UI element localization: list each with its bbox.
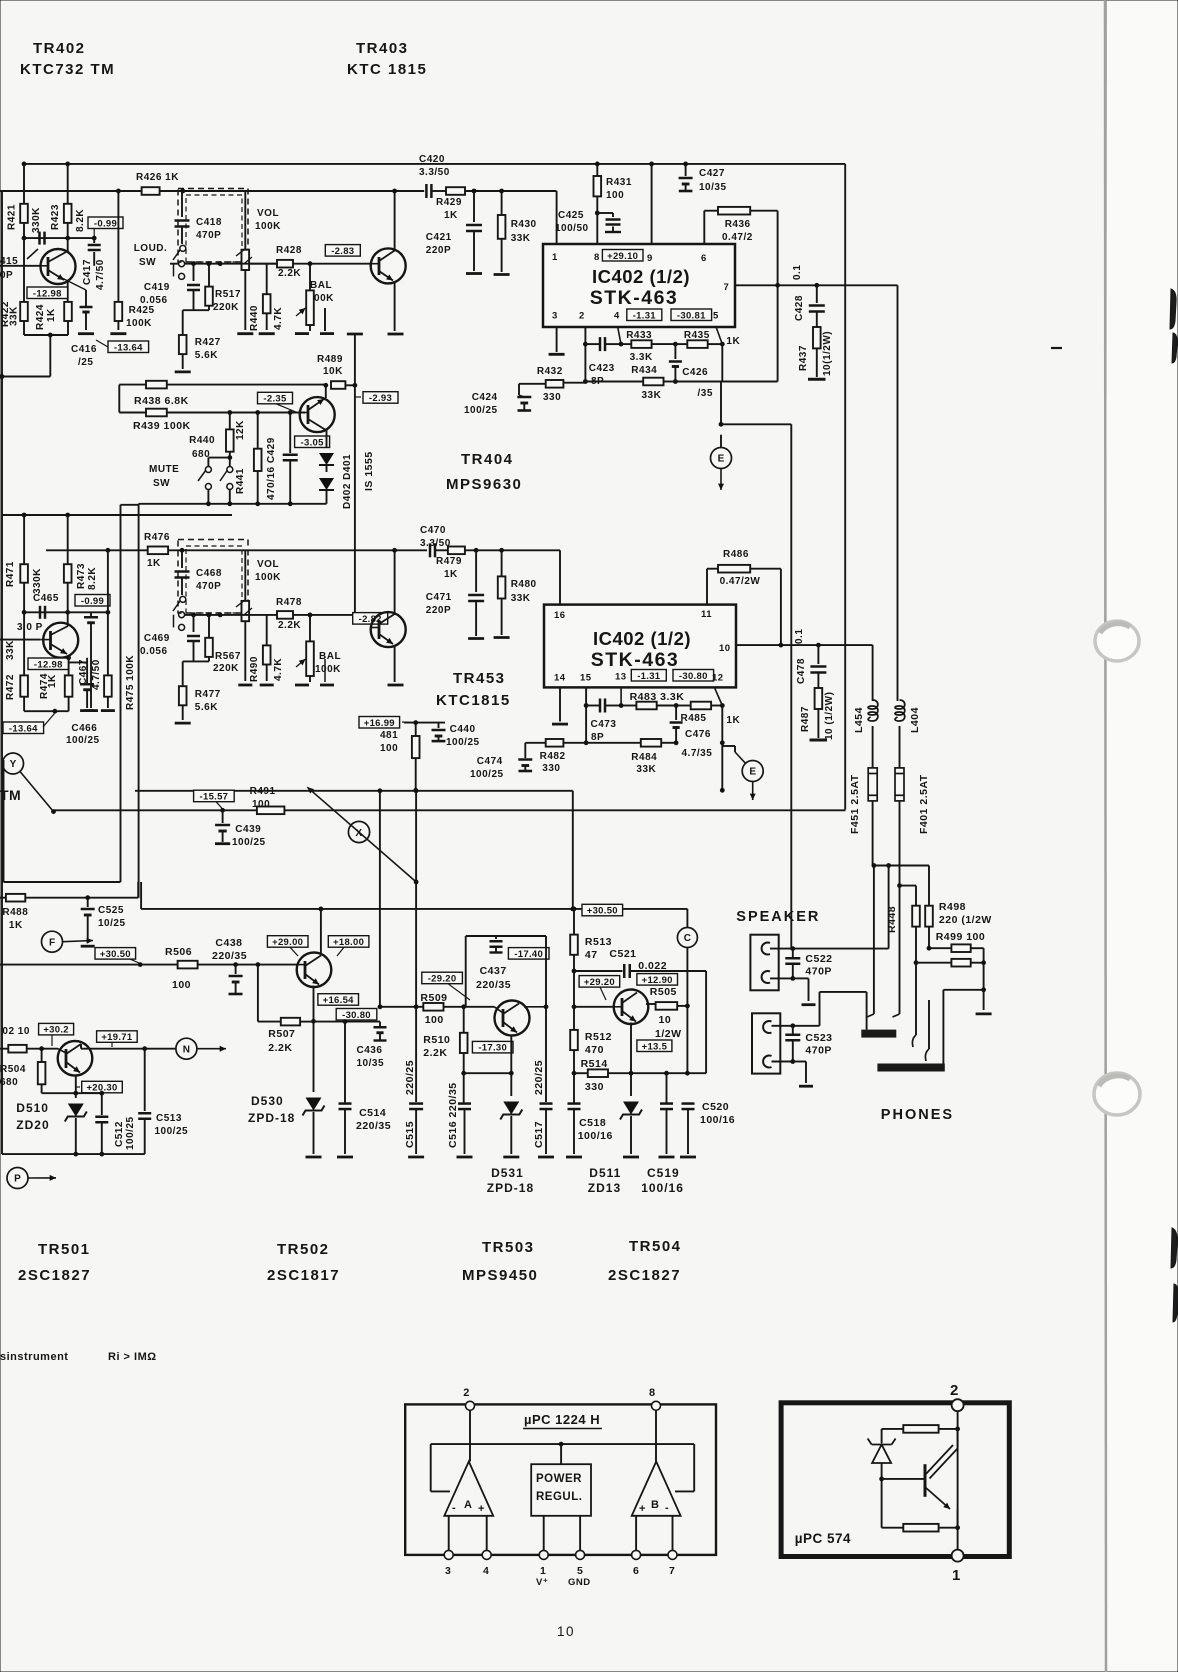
svg-text:TR503: TR503 [482, 1239, 535, 1256]
voltage box -17.40 [508, 948, 549, 960]
node dot wiper2 c [218, 613, 223, 618]
svg-text:R488: R488 [2, 907, 28, 918]
node dot R509 R510 [461, 1004, 466, 1009]
capacitor C419 0.056 [193, 264, 195, 281]
capacitor C518 100/16 [573, 1073, 575, 1103]
capacitor C465 30P [24, 611, 68, 613]
punch hole upper [1095, 621, 1139, 661]
svg-text:330: 330 [542, 763, 560, 774]
svg-text:-2.93: -2.93 [369, 393, 392, 404]
transistor TR452 [43, 623, 78, 658]
svg-text:D402 D401: D402 D401 [342, 454, 353, 509]
svg-text:100: 100 [606, 190, 624, 201]
svg-text:X: X [355, 828, 362, 839]
wire R513 branch [572, 907, 577, 912]
svg-text:POWER: POWER [536, 1473, 582, 1485]
svg-text:470P: 470P [805, 966, 832, 978]
voltage box -2.82 ch2 [353, 613, 388, 625]
svg-text:C514: C514 [359, 1107, 386, 1119]
wire pin6 up and R436 [703, 211, 705, 244]
wire TR502 emitter down [313, 986, 315, 1022]
svg-text:100/25: 100/25 [446, 737, 480, 748]
svg-text:100/50: 100/50 [555, 223, 589, 234]
svg-text:2SC1827: 2SC1827 [608, 1267, 681, 1284]
svg-text:TR402: TR402 [33, 40, 86, 57]
node dot bus pin9 [649, 162, 654, 167]
svg-text:2: 2 [950, 1382, 959, 1399]
voltage box +18.00 [328, 936, 369, 948]
wire C node vertical [686, 909, 688, 928]
svg-text:100/16: 100/16 [641, 1181, 684, 1195]
voltage box +12.90 [637, 974, 678, 986]
svg-text:R424: R424 [35, 304, 46, 330]
inductor L404 [895, 700, 905, 721]
wire phones tip drop [873, 866, 875, 1015]
capacitor C421 220P [473, 191, 475, 222]
svg-text:2.2K: 2.2K [268, 1042, 292, 1054]
capacitor C519 100/16 [664, 1071, 669, 1076]
voltage box +16.54 [318, 994, 359, 1006]
svg-text:PHONES: PHONES [881, 1107, 954, 1123]
node dot pin7 C428 [814, 283, 819, 288]
svg-text:B: B [651, 1499, 659, 1511]
wire input row ch1 [0, 190, 183, 192]
svg-text:+: + [478, 1503, 485, 1515]
voltage box +30.2 [39, 1023, 74, 1035]
node dot R512 bottom [572, 1071, 577, 1076]
svg-text:R478: R478 [276, 597, 302, 608]
resistor R514 330 [574, 1072, 588, 1074]
resistor R504 680 [41, 1049, 43, 1062]
capacitor C476 4.7/35 [675, 706, 677, 721]
node dot bus2 a [22, 513, 27, 518]
svg-text:R428: R428 [276, 245, 302, 256]
svg-text:+13.5: +13.5 [642, 1041, 668, 1052]
svg-text:SW: SW [153, 478, 170, 489]
resistor R423 8.2K [67, 164, 69, 204]
uPC574 base wire [882, 1478, 925, 1480]
node circle N [176, 1038, 197, 1059]
voltage box +20.30 [82, 1081, 123, 1093]
svg-text:Y: Y [10, 759, 17, 770]
node dot pin10 R486 [779, 643, 784, 648]
node dot wiper2 b [206, 613, 211, 618]
capacitor C517 220/25 [540, 1102, 553, 1105]
node dot bus R431 [595, 162, 600, 167]
svg-text:N: N [183, 1044, 190, 1055]
dashed box VOL ch2 [178, 540, 248, 614]
wire pin10 down to L454 [872, 645, 874, 701]
resistor R480 33K [501, 550, 503, 576]
svg-text:KTC 1815: KTC 1815 [347, 61, 427, 78]
uPC1224 bottom leads [448, 1516, 450, 1551]
svg-text:-30.81: -30.81 [677, 310, 706, 321]
svg-text:MPS9450: MPS9450 [462, 1267, 538, 1284]
svg-text:1K: 1K [47, 674, 58, 688]
svg-text:R426 1K: R426 1K [136, 172, 179, 183]
switch LOUD ch1 [180, 245, 186, 251]
resistor R478 2.2K [277, 611, 293, 619]
svg-text:C518: C518 [579, 1117, 606, 1129]
svg-text:10: 10 [719, 643, 731, 654]
potentiometer VOL ch2 [244, 550, 246, 601]
svg-text:TR504: TR504 [629, 1238, 682, 1255]
node dot phones gnd [981, 987, 986, 992]
svg-text:R437: R437 [798, 345, 809, 371]
voltage box -15.57 [194, 790, 235, 802]
svg-text:R429: R429 [436, 197, 462, 208]
transistor TR453 [371, 612, 406, 647]
svg-text:10/35: 10/35 [699, 182, 727, 193]
capacitor C523 470P [792, 1026, 794, 1034]
voltage box -0.99 ch2 [75, 595, 110, 607]
IC uPC574 outer box [781, 1403, 1009, 1557]
resistor R505 10 1/2W [646, 1003, 656, 1005]
wire IC1 pin7 output [735, 284, 898, 286]
resistor R486 0.47/2W [706, 569, 708, 605]
resistor R482 330 [525, 742, 545, 744]
svg-text:C436: C436 [357, 1045, 383, 1056]
svg-text:+16.54: +16.54 [323, 995, 355, 1006]
wire R510 to emitter [464, 1072, 512, 1074]
node dot R489 l [323, 383, 328, 388]
resistor R435 [687, 340, 707, 348]
wire TR453 collector up [394, 550, 396, 614]
svg-text:5: 5 [577, 1565, 583, 1577]
node dot E1 [719, 422, 724, 427]
svg-text:C512: C512 [114, 1121, 125, 1147]
svg-text:SPEAKER: SPEAKER [736, 909, 820, 925]
svg-text:100: 100 [425, 1014, 444, 1026]
svg-text:100/16: 100/16 [578, 1130, 613, 1142]
resistor R440 4.7K [266, 264, 268, 295]
svg-text:3.3/50: 3.3/50 [420, 538, 451, 549]
svg-text:R431: R431 [606, 177, 632, 188]
switch LOUD ch2 [180, 596, 186, 602]
wire TR404 emitter to R489 row [325, 385, 327, 398]
svg-text:R491: R491 [250, 786, 276, 797]
svg-text:C521: C521 [609, 948, 636, 960]
capacitor C415 coupling [38, 232, 41, 245]
node dot R430 [499, 189, 504, 194]
capacitor C420 3.3/50 [425, 184, 428, 198]
capacitor C440 100/25 [404, 722, 445, 724]
svg-text:ZPD-18: ZPD-18 [248, 1111, 295, 1125]
svg-text:C421: C421 [426, 232, 452, 243]
speaker connector 2 [752, 1013, 780, 1073]
node dot spk up [886, 863, 891, 868]
resistor R567 220K [208, 615, 210, 638]
svg-text:R436: R436 [725, 219, 751, 230]
wire ring2 [928, 1000, 930, 1049]
node dot fb c [720, 342, 725, 347]
wire C521 right drop [705, 971, 707, 1073]
uPC1224 pin terminals bottom [444, 1550, 453, 1559]
uPC1224 inner bus [431, 1443, 695, 1445]
svg-text:R490: R490 [249, 656, 260, 682]
capacitor C468 470P [181, 550, 183, 568]
svg-text:470P: 470P [196, 230, 221, 241]
svg-text:10: 10 [557, 1624, 575, 1639]
svg-text:IC402 (1/2): IC402 (1/2) [592, 266, 690, 287]
node dot C525 [85, 895, 90, 900]
wire fb right down [721, 344, 723, 381]
voltage box -13.64 ch1 [108, 341, 149, 353]
svg-text:C417: C417 [82, 259, 93, 285]
capacitor C521 0.022 [574, 970, 623, 972]
resistor R472 33K [23, 612, 25, 675]
page fold line [1105, 0, 1106, 1672]
svg-text:R484: R484 [631, 752, 657, 763]
svg-text:/35: /35 [698, 388, 713, 399]
svg-text:220P: 220P [426, 245, 451, 256]
capacitor C469 0.056 [193, 615, 195, 632]
svg-text:220/35: 220/35 [356, 1120, 391, 1132]
svg-text:TR404: TR404 [461, 451, 514, 468]
capacitor C473 8P [586, 705, 599, 707]
svg-text:R423: R423 [50, 204, 61, 230]
svg-text:10K: 10K [323, 366, 343, 377]
svg-text:BAL: BAL [310, 280, 332, 291]
capacitor C436 10/35 [379, 1022, 381, 1026]
svg-text:L404: L404 [909, 707, 921, 733]
svg-text:2: 2 [463, 1387, 470, 1399]
wire wiper row ch1 [185, 263, 277, 265]
svg-text:0.1: 0.1 [792, 265, 803, 280]
svg-text:330: 330 [543, 392, 561, 403]
resistor R438 6.8K [146, 381, 167, 389]
svg-text:R510: R510 [423, 1034, 450, 1046]
svg-text:1: 1 [552, 252, 558, 263]
voltage box -30.81 [671, 309, 712, 321]
scan fleck [1051, 347, 1062, 349]
svg-text:100: 100 [380, 743, 398, 754]
wire mute bus [139, 503, 327, 505]
wire Y diagonal [20, 772, 54, 812]
svg-text:-2.35: -2.35 [263, 394, 287, 405]
wire mute bus drop left [138, 504, 140, 898]
svg-text:+: + [639, 1503, 646, 1515]
svg-text:R440: R440 [249, 305, 260, 331]
resistor R433 3.3K [621, 343, 631, 345]
svg-text:5.6K: 5.6K [195, 350, 218, 361]
svg-text:+12.90: +12.90 [642, 975, 673, 986]
svg-text:R499 100: R499 100 [936, 931, 986, 943]
resistor R430 33K [501, 191, 503, 215]
svg-text:-: - [665, 1502, 669, 1514]
svg-text:10/35: 10/35 [357, 1058, 385, 1069]
uPC574 main vertical [957, 1411, 959, 1549]
uPC574 transistor [924, 1464, 927, 1497]
svg-text:2.2K: 2.2K [278, 268, 301, 279]
svg-text:C473: C473 [591, 719, 617, 730]
svg-text:D530: D530 [251, 1094, 284, 1108]
node dot pin7 R436 [775, 283, 780, 288]
capacitor C417 4.7/50 [92, 236, 97, 241]
wire row to R428 [248, 263, 277, 265]
resistor R431 100 [596, 164, 598, 176]
transistor TR403 [371, 248, 406, 283]
wire lower bus drop to +30.50 rail [572, 791, 574, 909]
svg-text:-: - [452, 1502, 456, 1514]
capacitor C424 100/25 [518, 384, 520, 395]
svg-text:R439 100K: R439 100K [133, 420, 191, 432]
op-amp A feedback [430, 1444, 432, 1491]
node dot R489 r [353, 383, 358, 388]
node dot pin15 low [584, 740, 589, 745]
svg-text:8P: 8P [591, 732, 604, 743]
svg-text:C471: C471 [426, 592, 452, 603]
wire pin2 down [584, 327, 586, 381]
uPC574 resistor top [882, 1428, 904, 1430]
svg-text:C466: C466 [71, 723, 97, 734]
svg-text:9: 9 [647, 253, 653, 264]
voltage box -0.99 ch1 [88, 217, 123, 229]
wire junction row ch2 [183, 660, 209, 662]
svg-text:R517: R517 [215, 289, 241, 300]
voltage box -30.80 [673, 670, 714, 682]
capacitor C423 8P [585, 343, 599, 345]
svg-text:C420: C420 [419, 154, 445, 165]
node dot rail x573 [570, 907, 575, 912]
node dot wiper2 a [191, 613, 196, 618]
svg-text:12K: 12K [235, 420, 246, 440]
wire R426 to collector node [183, 190, 424, 192]
op-amp B triangle [655, 1410, 657, 1461]
svg-text:1K: 1K [444, 569, 458, 580]
wire ch2 emitter bottom [24, 710, 69, 712]
diode D401 IS1555 [326, 430, 328, 448]
node dot bus1 a [22, 162, 27, 167]
svg-text:12: 12 [712, 673, 724, 684]
jumper diagonal with X [307, 787, 416, 882]
svg-text:C474: C474 [477, 756, 503, 767]
punch hole lower [1094, 1073, 1140, 1115]
transistor TR503 [495, 1001, 530, 1036]
wire pin12 slant [714, 687, 722, 705]
svg-text:KTC1815: KTC1815 [436, 692, 511, 709]
resistor R481 100 [415, 723, 417, 736]
voltage box +30.50 right [582, 904, 623, 916]
node dot Y wire [51, 809, 56, 814]
svg-text:220K: 220K [213, 302, 239, 313]
svg-text:+29.00: +29.00 [272, 937, 303, 948]
voltage box -2.93 [363, 392, 398, 404]
svg-text:100/25: 100/25 [155, 1126, 189, 1137]
svg-text:R512: R512 [585, 1031, 612, 1043]
svg-text:470P: 470P [196, 581, 221, 592]
node dot C521 row [572, 969, 577, 974]
svg-text:C522: C522 [805, 953, 832, 965]
svg-text:Ri > IMΩ: Ri > IMΩ [108, 1351, 157, 1363]
wire R438 row [119, 384, 325, 386]
svg-text:100/25: 100/25 [66, 735, 100, 746]
node dot R440t [227, 410, 232, 415]
node dot rail TR502 [319, 907, 324, 912]
node dot bus1 b [65, 162, 70, 167]
wire phones ring contacts [915, 963, 917, 1035]
svg-text:TR501: TR501 [38, 1241, 91, 1258]
svg-text:100: 100 [172, 979, 191, 991]
svg-text:2SC1817: 2SC1817 [267, 1267, 340, 1284]
node dot TR502 emitter [311, 1019, 316, 1024]
svg-text:4: 4 [483, 1565, 489, 1577]
node dot fb a [619, 342, 624, 347]
svg-text:2: 2 [579, 311, 585, 322]
svg-text:R504: R504 [0, 1064, 26, 1075]
wire pin9 up [651, 164, 653, 244]
node dot C438 [233, 962, 238, 967]
wire R488 row [0, 897, 138, 899]
capacitor C466 100/25 [69, 661, 88, 663]
op-amp IC402 (1/2) lower box [544, 605, 736, 688]
svg-text:R479: R479 [436, 556, 462, 567]
svg-text:R425: R425 [129, 305, 155, 316]
resistor R422 33K left [23, 238, 25, 302]
svg-text:C468: C468 [196, 568, 222, 579]
wire TR402 base [0, 265, 40, 267]
resistor R489 10K [331, 381, 345, 389]
svg-text:7: 7 [669, 1565, 675, 1577]
capacitor C416 /25 [58, 276, 86, 290]
enclosure box corner [120, 505, 122, 882]
IC uPC1224H outer box [405, 1404, 716, 1555]
svg-text:470: 470 [585, 1044, 604, 1056]
svg-text:D511: D511 [589, 1166, 621, 1180]
svg-text:2.2K: 2.2K [278, 620, 301, 631]
svg-text:11: 11 [701, 609, 712, 620]
svg-text:2SC1827: 2SC1827 [18, 1267, 91, 1284]
voltage box -2.83 [325, 245, 360, 257]
svg-text:R472: R472 [5, 674, 16, 700]
wire C437 top hat [466, 935, 546, 937]
resistor R487 10(1/2W) [815, 688, 823, 709]
power regulator box [531, 1464, 591, 1516]
svg-text:220P: 220P [426, 605, 451, 616]
wire phones sleeve [943, 989, 983, 991]
svg-text:470/16 C429: 470/16 C429 [266, 437, 277, 500]
node dot wiper b [206, 261, 211, 266]
svg-text:GND: GND [568, 1577, 591, 1588]
svg-text:C469: C469 [144, 633, 170, 644]
wire top bus ch1 [22, 163, 845, 165]
node dot C439 [220, 808, 225, 813]
uPC574 resistor bottom [881, 1479, 883, 1528]
svg-text:0.056: 0.056 [140, 646, 168, 657]
svg-text:100/25: 100/25 [470, 769, 504, 780]
capacitor C471 220P [475, 550, 477, 592]
svg-text:1: 1 [540, 1565, 546, 1577]
svg-text:µPC 1224 H: µPC 1224 H [524, 1412, 600, 1427]
voltage box -13.64 ch2 [3, 722, 44, 734]
svg-text:STK-463: STK-463 [590, 287, 679, 309]
svg-text:R441: R441 [235, 468, 246, 494]
node circle E lower [742, 761, 763, 782]
voltage box -17.30 [472, 1041, 513, 1053]
svg-text:REGUL.: REGUL. [536, 1491, 582, 1503]
svg-text:C419: C419 [144, 282, 170, 293]
voltage box +29.10 [602, 250, 643, 262]
dashed box VOL ch1 [178, 189, 248, 263]
node dot C415 row l [22, 236, 27, 241]
wire TR452 collector [67, 612, 69, 626]
voltage box -1.31 lower [631, 670, 666, 682]
svg-text:+29.10: +29.10 [607, 251, 638, 262]
resistor R499 a [927, 946, 932, 951]
diode D530 ZPD-18 [313, 1021, 315, 1092]
svg-text:1/2W: 1/2W [655, 1028, 682, 1040]
svg-text:10: 10 [659, 1014, 672, 1026]
